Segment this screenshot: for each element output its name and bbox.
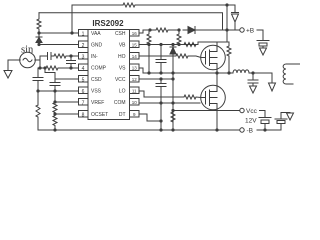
node OCSET dot — [53, 112, 56, 115]
pin box 7 VREF — [79, 99, 89, 106]
node VAA dot — [37, 31, 40, 34]
svg-text:13: 13 — [132, 66, 138, 71]
wire COMP node to CSD cap — [45, 68, 55, 79]
wire X to Rcomp — [40, 67, 46, 69]
wire DT chain — [160, 103, 162, 130]
node VAA riser dot — [70, 31, 73, 34]
pin box 16 CSH — [130, 30, 140, 37]
capacitor C-B electrolytic — [275, 113, 290, 124]
resistor Rin — [54, 54, 78, 58]
svg-text:VSS: VSS — [91, 89, 102, 95]
capacitor Cboot — [156, 45, 166, 74]
pin box 15 VB — [130, 41, 140, 48]
terminal +B — [240, 28, 244, 32]
node CSD cap dot — [53, 89, 56, 92]
node GND dot — [37, 43, 40, 46]
svg-text:VREF: VREF — [91, 100, 104, 106]
diode Dboot — [170, 45, 176, 131]
svg-text:CSD: CSD — [91, 77, 102, 83]
ground input — [4, 71, 12, 79]
pin box 14 HO — [130, 53, 140, 60]
node VB dots — [147, 43, 150, 46]
wire -B right segment — [257, 124, 281, 131]
svg-text:-B: -B — [247, 128, 254, 135]
rail B top — [39, 13, 223, 30]
diode D2 to +B — [183, 27, 223, 34]
wire CSH step — [139, 30, 150, 33]
wire to speaker — [271, 73, 273, 83]
resistor Rcsh1b vertical — [147, 30, 151, 45]
inductor L1 — [233, 70, 249, 73]
capacitor Cin plates — [40, 53, 54, 60]
node +B column dot — [225, 28, 228, 31]
node VREF dot — [53, 100, 56, 103]
svg-text:+B: +B — [246, 28, 254, 35]
svg-text:Vcc: Vcc — [246, 108, 258, 115]
svg-text:2: 2 — [82, 43, 85, 49]
capacitor Ccomp integrator — [67, 56, 76, 68]
svg-text:6: 6 — [82, 89, 85, 95]
node COM dots — [159, 101, 162, 104]
resistor Rvss — [36, 105, 40, 130]
resistor Rcsh2b vertical — [177, 30, 181, 45]
pin box 8 OCSET — [79, 111, 89, 118]
svg-text:DT: DT — [119, 112, 126, 118]
pin box 4 COMP — [79, 64, 89, 71]
wire GND row — [39, 44, 78, 46]
pin box 1 VAA — [79, 30, 89, 37]
wire VAA row — [39, 32, 78, 34]
node LC dot — [251, 71, 254, 74]
pin box 6 VSS — [79, 87, 89, 94]
svg-text:VCC: VCC — [115, 77, 126, 83]
svg-text:11: 11 — [132, 89, 137, 94]
wire source left — [8, 60, 20, 70]
node CSH dot — [148, 28, 151, 31]
svg-text:8: 8 — [82, 113, 85, 119]
svg-text:COM: COM — [114, 100, 126, 106]
pin box 13 VS — [130, 64, 140, 71]
wire Vcc row — [173, 110, 239, 112]
capacitor C+B electrolytic — [257, 41, 269, 49]
wire Rcsh1b down to SW — [148, 45, 150, 74]
svg-text:IRS2092: IRS2092 — [92, 19, 124, 28]
svg-text:12V: 12V — [245, 118, 257, 125]
node COMP dot at X — [38, 66, 41, 69]
pin box 2 GND — [79, 41, 89, 48]
resistor Rboot vertical — [227, 42, 231, 73]
wire VAA riser — [71, 5, 73, 33]
wire VB row — [139, 44, 198, 46]
svg-text:LO: LO — [119, 89, 126, 95]
node CSH2 dot — [177, 28, 180, 31]
svg-text:HO: HO — [118, 54, 126, 60]
svg-text:16: 16 — [132, 31, 138, 36]
svg-text:VS: VS — [119, 66, 126, 72]
node rail dots — [159, 128, 162, 131]
svg-text:COMP: COMP — [91, 66, 107, 72]
capacitor Cout — [248, 73, 258, 86]
node C12 rail dot — [263, 128, 266, 131]
svg-text:9: 9 — [133, 112, 136, 117]
speaker LS coil — [283, 64, 300, 84]
wire Q2 drain — [216, 73, 218, 86]
pin box 10 COM — [130, 99, 140, 106]
wire VSS down left — [37, 91, 39, 105]
svg-text:5: 5 — [82, 78, 85, 84]
node rail A right dot — [225, 3, 228, 6]
wire +B row to terminal — [223, 29, 240, 31]
resistor Rcsh1 — [150, 28, 179, 32]
svg-text:3: 3 — [82, 55, 85, 61]
svg-text:CSH: CSH — [115, 31, 126, 37]
resistor Rvaa — [37, 13, 41, 33]
wire Vcc to cap — [260, 111, 266, 118]
resistor Rdt — [171, 111, 175, 131]
wire +B cap — [257, 30, 263, 40]
svg-text:4: 4 — [82, 66, 85, 72]
resistor Rvb — [184, 43, 196, 47]
node DT tap dot — [159, 119, 162, 122]
diode D3 rail A to +B — [227, 5, 239, 30]
wire VCC row — [139, 78, 173, 80]
wire COM row — [139, 102, 200, 104]
pin box 3 IN- — [79, 53, 89, 60]
node X vertical — [39, 56, 41, 68]
svg-text:10: 10 — [132, 100, 138, 105]
wire VREF row — [55, 101, 78, 103]
capacitor CA to VSS — [33, 68, 43, 91]
resistor Rvref — [53, 91, 57, 114]
wire DT step — [139, 114, 161, 121]
ground Cout arrow — [250, 86, 257, 93]
node SW dots — [147, 71, 150, 74]
node IN- dot — [69, 54, 72, 57]
signal source V1 — [20, 52, 36, 68]
wire VS step — [139, 68, 233, 73]
capacitor Cvcc — [156, 79, 166, 103]
capacitor C12 electrolytic — [259, 118, 271, 131]
pin box 9 DT — [130, 111, 140, 118]
terminal -B — [240, 128, 244, 132]
wire OCSET row — [55, 113, 78, 115]
bottom rail -B — [38, 129, 239, 131]
transistor Q1 high side — [201, 45, 226, 70]
ground +B arrow — [260, 48, 267, 55]
wire CSD — [55, 79, 78, 82]
pin box 11 LO — [130, 87, 140, 94]
svg-text:1: 1 — [82, 32, 85, 38]
svg-text:VAA: VAA — [91, 31, 101, 37]
transistor Q2 low side — [201, 85, 226, 110]
svg-text:GND: GND — [91, 43, 103, 49]
terminal Vcc — [240, 108, 244, 112]
IC U1 IRS2092 body — [88, 30, 130, 120]
resistor Rcomp — [46, 66, 78, 70]
node COMP dot — [69, 66, 72, 69]
ground -B arrow — [287, 113, 294, 120]
resistor Rho gate — [139, 54, 206, 58]
node OCSET rail dot — [53, 128, 56, 131]
resistor Rtop rail A — [123, 3, 227, 7]
svg-text:IN-: IN- — [91, 54, 98, 60]
pin box 12 VCC — [130, 76, 140, 83]
svg-text:7: 7 — [82, 101, 85, 107]
rail A top — [72, 4, 123, 6]
resistor Rlo gate — [139, 91, 206, 99]
wire VSS rail — [38, 90, 78, 92]
capacitor CB CSD — [50, 83, 60, 92]
node Vcc tap dot — [171, 109, 174, 112]
wire source right to node X — [35, 59, 40, 61]
svg-text:15: 15 — [132, 43, 138, 48]
svg-text:OCSET: OCSET — [91, 112, 108, 118]
ground speaker arrow — [269, 83, 276, 91]
svg-text:12: 12 — [132, 77, 138, 82]
zener D1 VAA-GND — [36, 34, 42, 45]
wire VB step to drain rail — [198, 42, 229, 45]
wire L to C — [249, 72, 272, 74]
wire +B column — [226, 5, 228, 42]
svg-text:14: 14 — [132, 54, 138, 59]
node VCC dots — [159, 77, 162, 80]
svg-text:VB: VB — [119, 43, 126, 49]
pin box 5 CSD — [79, 76, 89, 83]
